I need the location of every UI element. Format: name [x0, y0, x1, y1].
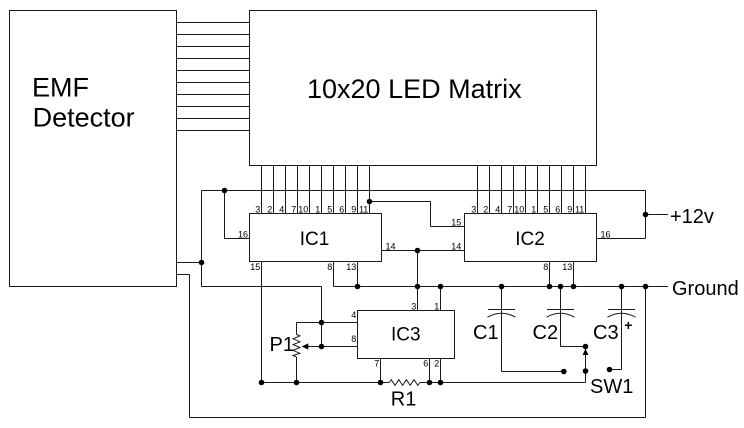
svg-text:SW1: SW1	[590, 376, 633, 398]
svg-text:2: 2	[434, 358, 439, 368]
svg-text:P1: P1	[270, 334, 294, 356]
svg-text:8: 8	[327, 262, 332, 272]
svg-text:10: 10	[298, 205, 308, 215]
svg-text:3: 3	[255, 205, 260, 215]
svg-text:11: 11	[359, 205, 368, 215]
svg-text:9: 9	[351, 205, 356, 215]
svg-text:C3: C3	[593, 322, 619, 344]
svg-text:4: 4	[351, 310, 356, 320]
svg-text:8: 8	[543, 262, 548, 272]
svg-text:9: 9	[567, 205, 572, 215]
svg-text:R1: R1	[391, 388, 417, 410]
svg-text:3: 3	[471, 205, 476, 215]
svg-text:Detector: Detector	[33, 103, 135, 133]
svg-text:13: 13	[346, 262, 356, 272]
svg-text:7: 7	[291, 205, 296, 215]
svg-text:14: 14	[386, 241, 396, 251]
svg-text:Ground: Ground	[672, 278, 739, 300]
svg-text:+: +	[624, 317, 632, 333]
svg-text:5: 5	[543, 205, 548, 215]
svg-text:4: 4	[495, 205, 500, 215]
svg-text:10x20 LED Matrix: 10x20 LED Matrix	[307, 74, 522, 104]
svg-text:13: 13	[562, 262, 572, 272]
svg-text:IC1: IC1	[300, 229, 330, 250]
svg-text:6: 6	[423, 358, 428, 368]
svg-text:15: 15	[451, 217, 461, 227]
svg-text:6: 6	[555, 205, 560, 215]
svg-text:4: 4	[279, 205, 284, 215]
svg-text:IC3: IC3	[391, 324, 421, 345]
svg-text:C1: C1	[473, 322, 499, 344]
svg-text:5: 5	[327, 205, 332, 215]
svg-text:15: 15	[250, 262, 260, 272]
svg-text:7: 7	[374, 358, 379, 368]
svg-text:14: 14	[451, 241, 461, 251]
svg-text:IC2: IC2	[515, 229, 545, 250]
svg-text:1: 1	[531, 205, 536, 215]
svg-text:10: 10	[514, 205, 524, 215]
svg-text:8: 8	[351, 334, 356, 344]
svg-text:16: 16	[601, 230, 611, 240]
svg-text:6: 6	[339, 205, 344, 215]
svg-text:16: 16	[238, 229, 248, 239]
svg-text:2: 2	[267, 205, 272, 215]
svg-text:11: 11	[575, 205, 584, 215]
svg-text:2: 2	[483, 205, 488, 215]
svg-text:C2: C2	[533, 322, 559, 344]
svg-text:EMF: EMF	[32, 73, 89, 103]
svg-text:1: 1	[315, 205, 320, 215]
svg-text:1: 1	[434, 302, 439, 312]
svg-text:+12v: +12v	[670, 206, 714, 228]
svg-text:3: 3	[411, 302, 416, 312]
svg-text:7: 7	[507, 205, 512, 215]
